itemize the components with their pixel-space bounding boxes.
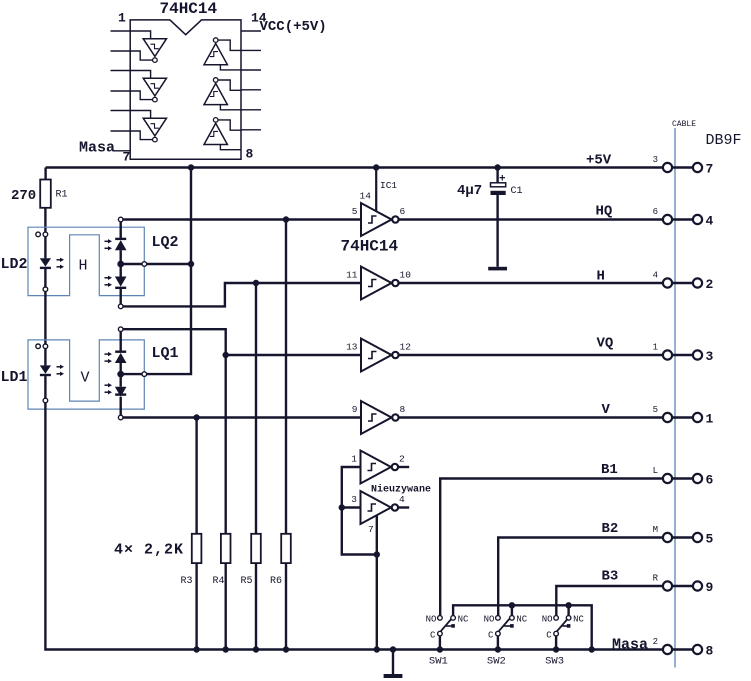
wire B2 net xyxy=(498,538,663,616)
node SW2 NC/bus junction xyxy=(509,602,515,608)
resistor R3 xyxy=(192,534,202,563)
IC left pin stub 4 wire xyxy=(111,90,131,92)
svg-text:1: 1 xyxy=(118,11,126,26)
svg-text:R5: R5 xyxy=(241,576,253,587)
svg-text:C: C xyxy=(430,630,436,640)
node pin7 riser/rail junction xyxy=(374,646,380,652)
node cable terminal 5 xyxy=(663,413,672,422)
svg-text:4: 4 xyxy=(706,214,714,229)
IC U1 74HC14 DIP package outline with notch xyxy=(130,20,241,159)
svg-text:IC1: IC1 xyxy=(380,180,397,191)
node DB9F pin 2 xyxy=(693,278,702,287)
node cable terminal 2 xyxy=(663,645,672,654)
node DB9F pin 4 xyxy=(693,215,702,224)
node HQ/R6 junction xyxy=(283,216,289,222)
svg-text:V: V xyxy=(81,370,90,387)
svg-text:NC: NC xyxy=(458,614,469,624)
node DB9F pin 8 xyxy=(693,645,702,654)
resistor R1 xyxy=(40,180,51,208)
svg-text:4× 2,2K: 4× 2,2K xyxy=(114,542,184,559)
wire +5V branch to LQ2/LQ1 centers xyxy=(147,168,191,375)
wire cable jumper row 7 xyxy=(672,166,693,168)
svg-text:HQ: HQ xyxy=(596,204,613,220)
node +5V/C1 junction xyxy=(494,164,500,170)
wire ground riser xyxy=(392,650,394,675)
node unused input junction xyxy=(339,504,345,510)
svg-text:6: 6 xyxy=(706,473,714,488)
wire LQ1 middle xyxy=(119,363,121,387)
svg-text:LQ1: LQ1 xyxy=(152,345,179,362)
wire R6 to rail xyxy=(285,563,287,649)
LD1 emit arrow 1 xyxy=(57,366,61,368)
gate IC1d pins 9/8 (Schmitt inverter V) xyxy=(361,401,392,434)
svg-text:B3: B3 xyxy=(602,569,619,585)
svg-text:SW2: SW2 xyxy=(487,656,506,668)
IC left pin stub 1 wire xyxy=(111,30,131,32)
svg-text:1: 1 xyxy=(653,343,658,353)
wire R1 to LD2 xyxy=(44,208,46,232)
svg-text:5: 5 xyxy=(352,206,358,217)
wire C1 top xyxy=(496,168,498,183)
wire VQ output (pin12 to connector) xyxy=(399,354,663,356)
wire R4 to rail xyxy=(224,563,226,649)
svg-text:LQ2: LQ2 xyxy=(152,234,179,251)
ground xyxy=(384,674,403,678)
svg-text:NO: NO xyxy=(542,614,553,624)
wire SW3 NC riser xyxy=(567,605,569,615)
IC right pin stub 10 wire xyxy=(241,109,261,111)
svg-text:3: 3 xyxy=(653,155,658,165)
node R5/rail junction xyxy=(253,646,259,652)
IC right pin stub 11 wire xyxy=(241,89,261,91)
IC right pin stub 14 wire xyxy=(241,30,261,32)
wire LQ2 bottom xyxy=(119,288,121,304)
LD2 emit arrow 2 xyxy=(57,266,61,268)
node SW3 common/rail junction xyxy=(553,646,559,652)
svg-text:5: 5 xyxy=(653,405,658,415)
LQ2 upper recv arrow 1 xyxy=(105,240,109,242)
svg-text:DB9F: DB9F xyxy=(706,132,742,149)
svg-text:C1: C1 xyxy=(511,186,523,197)
svg-text:NC: NC xyxy=(573,614,584,624)
LED LD1 xyxy=(40,365,51,373)
svg-text:R6: R6 xyxy=(270,576,282,587)
IC internal inverter L1 (down) xyxy=(130,31,166,62)
wire LQ2 center to branch xyxy=(147,263,191,265)
wire R3 to rail xyxy=(195,563,197,649)
node H/R5 junction xyxy=(253,280,259,286)
svg-text:R3: R3 xyxy=(181,576,193,587)
wire cable jumper row 6 xyxy=(672,477,693,479)
svg-text:11: 11 xyxy=(346,270,358,281)
svg-text:B2: B2 xyxy=(602,521,619,537)
svg-text:9: 9 xyxy=(352,404,358,415)
svg-text:VCC(+5V): VCC(+5V) xyxy=(260,19,327,35)
wire R5 riser xyxy=(255,283,257,534)
svg-text:C: C xyxy=(546,630,552,640)
wire +5V to R1 xyxy=(44,168,46,180)
node branch/LQ2 center junction xyxy=(188,261,194,267)
svg-text:6: 6 xyxy=(653,207,658,217)
gate IC1e pins 1/2 (unused) xyxy=(361,451,392,484)
node ground/rail junction xyxy=(390,646,396,652)
LQ1 upper recv arrow 1 xyxy=(105,353,109,355)
node cable terminal 3 xyxy=(663,163,672,172)
wire VQ net (LQ1 top to gate pin13) xyxy=(123,329,361,355)
svg-text:Nieuzywane: Nieuzywane xyxy=(371,484,431,496)
IC internal inverter L3 (down) xyxy=(130,111,166,142)
node R6/rail junction xyxy=(283,646,289,652)
svg-text:12: 12 xyxy=(400,342,412,353)
svg-text:NO: NO xyxy=(426,614,437,624)
wire SW3 common to rail xyxy=(555,636,557,650)
svg-text:B1: B1 xyxy=(601,462,618,478)
wire HQ output (pin6 to connector) xyxy=(399,218,663,220)
photodiode LQ2 upper xyxy=(115,238,126,240)
node R4/rail junction xyxy=(223,646,229,652)
svg-text:7: 7 xyxy=(368,524,374,535)
svg-text:R4: R4 xyxy=(213,576,225,587)
wire LD2 to LD1 xyxy=(44,292,46,344)
wire unused gates input tie xyxy=(342,467,377,555)
svg-text:H: H xyxy=(597,269,605,285)
node LQ1 bottom terminal xyxy=(118,415,123,420)
svg-text:4µ7: 4µ7 xyxy=(457,183,482,199)
switch SW1 xyxy=(438,616,456,636)
wire SW2 NC riser xyxy=(511,605,513,615)
node cable terminal 6 xyxy=(663,215,672,224)
cable line xyxy=(674,128,676,668)
wire LQ2 middle xyxy=(119,250,121,276)
LD1 emit arrow 2 xyxy=(57,373,61,375)
capacitor C1 xyxy=(491,183,506,187)
svg-text:NC: NC xyxy=(516,614,527,624)
svg-text:8: 8 xyxy=(400,404,406,415)
IC internal inverter R3 (up) xyxy=(204,118,241,150)
node LD2 bottom terminal xyxy=(43,287,48,292)
svg-text:Masa: Masa xyxy=(79,140,115,157)
wire H output (pin10 to connector) xyxy=(399,282,663,284)
pin 7 stub wire xyxy=(114,150,131,152)
wire LQ1 center tap xyxy=(121,373,142,375)
node V/R3 junction xyxy=(193,414,199,420)
node DB9F pin 1 xyxy=(693,413,702,422)
node SW1 common/rail junction xyxy=(437,646,443,652)
IC left pin stub 2 wire xyxy=(111,50,131,52)
wire LD2 cathode xyxy=(44,269,46,287)
node LD1 top terminals xyxy=(36,344,41,349)
wire HQ net (LQ2 top to gate pin5) xyxy=(123,218,361,220)
wire B3 net xyxy=(556,586,663,616)
svg-text:+: + xyxy=(499,174,506,186)
wire cable jumper row 4 xyxy=(672,218,693,220)
wire gate1 output stub xyxy=(398,466,409,468)
svg-text:9: 9 xyxy=(706,580,714,595)
svg-text:V: V xyxy=(602,402,611,418)
resistor R6 xyxy=(281,534,291,563)
svg-text:7: 7 xyxy=(123,150,131,165)
wire LQ2 top xyxy=(119,222,121,239)
svg-text:1: 1 xyxy=(351,454,357,465)
node LQ2 bottom terminal xyxy=(118,304,123,309)
wire gate2 input stub xyxy=(342,506,361,508)
wire H net (LQ2 bottom to gate pin11) xyxy=(123,283,361,306)
svg-text:74HC14: 74HC14 xyxy=(341,238,399,256)
node pin7/tie junction xyxy=(374,551,380,557)
svg-text:+5V: +5V xyxy=(586,153,612,169)
optocoupler H box outline xyxy=(28,227,144,295)
svg-text:8: 8 xyxy=(706,644,714,659)
node DB9F pin 5 xyxy=(693,533,702,542)
LQ1 upper recv arrow 2 xyxy=(105,360,109,362)
node +5V/branch junction xyxy=(188,164,194,170)
node SW2 common/rail junction xyxy=(495,646,501,652)
svg-text:Masa: Masa xyxy=(612,637,648,654)
wire IC1 pin14 riser xyxy=(375,168,377,211)
svg-text:LD1: LD1 xyxy=(1,369,28,386)
svg-text:L: L xyxy=(653,466,658,476)
wire R3 riser xyxy=(195,418,197,534)
node SW3 NC/bus junction xyxy=(565,602,571,608)
svg-text:LD2: LD2 xyxy=(1,256,28,273)
svg-text:VQ: VQ xyxy=(597,336,614,352)
resistor R4 xyxy=(221,534,231,563)
LQ1 lower recv arrow 1 xyxy=(105,384,109,386)
wire V net (LQ1 bottom to gate pin9) xyxy=(123,416,361,418)
LQ2 lower recv arrow 1 xyxy=(105,277,109,279)
node cable terminal M xyxy=(663,533,672,542)
wire gate2 output stub xyxy=(398,506,409,508)
svg-text:NO: NO xyxy=(484,614,495,624)
wire B1 net xyxy=(440,479,663,616)
svg-text:6: 6 xyxy=(400,206,406,217)
node cable terminal 4 xyxy=(663,278,672,287)
switch SW3 xyxy=(554,616,571,636)
wire cable jumper row 5 xyxy=(672,536,693,538)
wire LD1 anode xyxy=(44,349,46,366)
IC right pin stub 12 wire xyxy=(241,69,261,71)
svg-text:2: 2 xyxy=(399,454,405,465)
svg-text:CABLE: CABLE xyxy=(672,120,696,129)
IC internal inverter R2 (up) xyxy=(204,78,241,110)
svg-text:H: H xyxy=(79,258,88,275)
node LD1 bottom terminal xyxy=(43,398,48,403)
node NC bus/rail junction xyxy=(589,646,595,652)
IC right pin stub 13 wire xyxy=(241,49,261,51)
node LQ1 center junction xyxy=(117,371,124,378)
wire +5V rail xyxy=(46,166,663,168)
svg-text:2: 2 xyxy=(653,637,658,647)
wire LQ1 bottom xyxy=(119,397,121,415)
LD2 emit arrow 1 xyxy=(57,259,61,261)
svg-text:8: 8 xyxy=(246,147,254,162)
photodiode LQ1 upper xyxy=(115,351,126,353)
ground (C1) xyxy=(488,267,507,271)
node cable terminal L xyxy=(663,474,672,483)
svg-text:SW3: SW3 xyxy=(545,656,564,668)
node LQ2 top terminal xyxy=(118,217,123,222)
node LQ2 center terminal xyxy=(142,262,147,267)
LQ2 lower recv arrow 2 xyxy=(105,284,109,286)
svg-text:3: 3 xyxy=(351,494,357,505)
node LQ1 top terminal xyxy=(118,327,123,332)
node DB9F pin 6 xyxy=(693,474,702,483)
node DB9F pin 9 xyxy=(693,581,702,590)
node cable terminal 1 xyxy=(663,350,672,359)
svg-text:2: 2 xyxy=(706,277,714,292)
svg-text:4: 4 xyxy=(653,271,658,281)
node LQ1 center terminal xyxy=(142,372,147,377)
LED LD2 xyxy=(40,258,51,266)
node LD2 top terminals xyxy=(36,232,41,237)
node R3/rail junction xyxy=(193,646,199,652)
svg-text:R: R xyxy=(653,574,659,584)
resistor R5 xyxy=(251,534,261,563)
IC left pin stub 6 wire xyxy=(111,130,131,132)
wire LD1 cathode xyxy=(44,376,46,398)
svg-text:SW1: SW1 xyxy=(429,656,448,668)
wire LD2 anode xyxy=(44,237,46,259)
node VQ/R4 junction xyxy=(223,352,229,358)
wire R4 riser xyxy=(224,355,226,534)
node LQ2 center junction xyxy=(117,261,124,268)
wire SW1 common to rail xyxy=(439,636,441,650)
IC right pin stub 9 wire xyxy=(241,129,261,131)
svg-text:M: M xyxy=(653,525,658,535)
IC left pin stub 5 wire xyxy=(111,110,131,112)
node DB9F pin 7 xyxy=(693,163,702,172)
node DB9F pin 3 xyxy=(693,350,702,359)
svg-text:13: 13 xyxy=(346,342,358,353)
wire V output (pin8 to connector) xyxy=(399,416,663,418)
IC internal inverter R1 (up) xyxy=(204,38,241,70)
svg-text:74HC14: 74HC14 xyxy=(160,0,218,18)
svg-text:5: 5 xyxy=(706,532,714,547)
node cable terminal R xyxy=(663,581,672,590)
gate IC1b pins 11/10 (Schmitt inverter H) xyxy=(361,267,392,300)
IC internal inverter L2 (down) xyxy=(130,71,166,102)
svg-text:1: 1 xyxy=(706,412,714,427)
wire SW2 common to rail xyxy=(497,636,499,650)
IC left pin stub 3 wire xyxy=(111,70,131,72)
op-amp gate IC1a pins 5/6 (Schmitt inverter HQ) xyxy=(361,203,392,236)
wire LQ1 top xyxy=(119,332,121,352)
wire C1 bottom xyxy=(496,195,498,267)
wire pin7 riser to ground rail xyxy=(376,516,378,650)
LQ2 upper recv arrow 2 xyxy=(105,247,109,249)
wire R5 to rail xyxy=(255,563,257,649)
svg-text:270: 270 xyxy=(11,188,36,204)
switch SW2 xyxy=(496,616,515,636)
svg-text:R1: R1 xyxy=(56,190,68,201)
svg-text:3: 3 xyxy=(706,349,714,364)
svg-text:C: C xyxy=(488,630,494,640)
photodiode LQ1 lower xyxy=(115,387,127,397)
svg-text:4: 4 xyxy=(399,494,405,505)
svg-text:14: 14 xyxy=(360,191,372,202)
LQ1 lower recv arrow 2 xyxy=(105,391,109,393)
wire cable jumper row 9 xyxy=(672,585,693,587)
wire LD1 to ground rail (left drop) xyxy=(45,403,663,650)
wire cable jumper row 1 xyxy=(672,416,693,418)
svg-text:10: 10 xyxy=(400,270,412,281)
gate IC1f pins 3/4 (unused) xyxy=(361,491,392,524)
node +5V/IC1 pin14 junction xyxy=(373,164,379,170)
wire cable jumper row 8 xyxy=(672,648,693,650)
photodiode LQ2 lower xyxy=(115,277,127,287)
wire LQ2 center tap xyxy=(121,263,142,265)
svg-text:7: 7 xyxy=(706,162,714,177)
gate IC1c pins 13/12 (Schmitt inverter VQ) xyxy=(361,339,392,372)
optocoupler V box outline xyxy=(28,340,144,409)
wire R6 riser xyxy=(285,220,287,534)
wire cable jumper row 2 xyxy=(672,282,693,284)
wire NC bus to ground rail xyxy=(453,605,592,649)
wire cable jumper row 3 xyxy=(672,354,693,356)
